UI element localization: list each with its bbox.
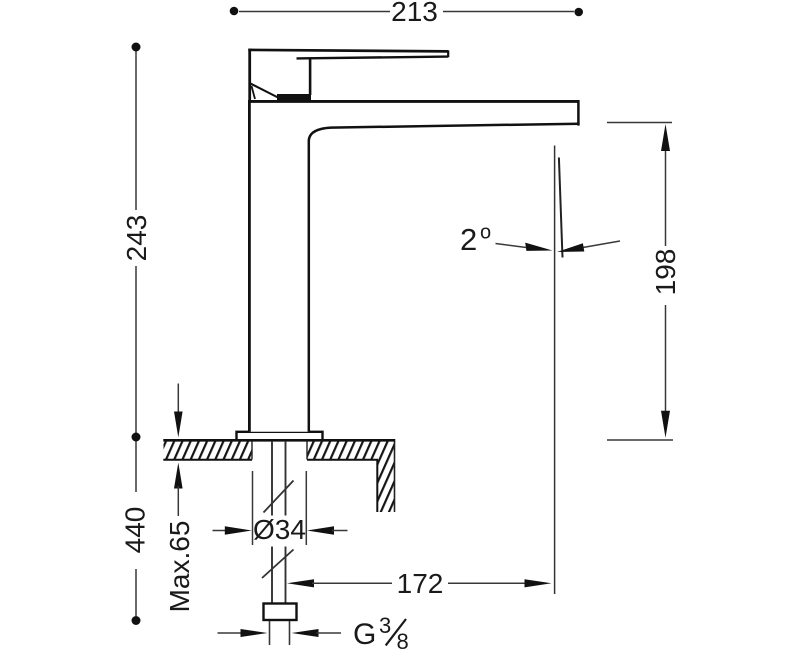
faucet column left edge xyxy=(248,100,251,432)
2 degree leader left with arrow xyxy=(496,244,531,249)
countertop deck hatched right section xyxy=(307,441,394,460)
vertical axis line through spout outlet xyxy=(554,146,556,595)
G3/8 extension tick left xyxy=(269,621,271,645)
handle left edge xyxy=(248,49,251,100)
svg-text:8: 8 xyxy=(397,629,409,650)
deck top surface line xyxy=(163,439,395,442)
diameter 34 extension line left xyxy=(252,471,254,545)
svg-text:172: 172 xyxy=(397,568,444,599)
handle base small facet line xyxy=(252,86,256,99)
deck leg inner edge xyxy=(376,460,378,512)
G3/8 connector box xyxy=(264,604,297,621)
supply pipe left edge upper xyxy=(271,441,273,516)
pipe break slash upper xyxy=(264,481,294,513)
dot at deck level xyxy=(132,433,141,442)
pipe break slash lower xyxy=(262,550,294,579)
supply pipe left edge lower xyxy=(271,547,273,604)
svg-text:Max.65: Max.65 xyxy=(164,521,195,613)
svg-text:2: 2 xyxy=(460,222,477,257)
deck bottom line left xyxy=(163,459,252,461)
dimension line 213 (top) xyxy=(239,11,574,13)
2 degree tilted line xyxy=(559,158,563,258)
dark gap bar between handle and body xyxy=(277,94,311,102)
Max.65 dimension arrow above deck xyxy=(177,384,179,415)
dot endpoint left of 213 xyxy=(230,7,239,16)
svg-text:G: G xyxy=(353,618,376,650)
2 degree leader right with arrow xyxy=(580,241,620,248)
handle stem front edge xyxy=(309,57,312,95)
handle lever tip edge xyxy=(447,50,449,57)
172 dimension line left segment with arrow xyxy=(287,579,314,587)
svg-text:Ø34: Ø34 xyxy=(253,514,306,545)
handle base diagonal facet line xyxy=(250,83,279,98)
handle white fill xyxy=(250,50,449,99)
dimension line 243/440 (left vertical) xyxy=(135,51,137,616)
G3/8 dimension arrow right xyxy=(292,629,319,637)
countertop deck hatched left section xyxy=(164,441,253,460)
198 extension line top xyxy=(607,122,672,124)
deck leg outer edge xyxy=(394,441,396,512)
faucet base plate (escutcheon) xyxy=(237,432,323,440)
diameter 34 dimension line right with arrow xyxy=(307,526,334,534)
spout underside edge and column inner edge xyxy=(309,124,580,432)
svg-text:198: 198 xyxy=(650,249,681,296)
198 extension line bottom xyxy=(607,439,673,441)
G3/8 extension tick right xyxy=(289,621,291,645)
198 dimension line with arrows xyxy=(665,148,667,246)
G3/8 dimension arrow left xyxy=(218,632,243,634)
dot at top of 243 xyxy=(132,43,141,52)
supply pipe right edge lower xyxy=(285,547,287,604)
diameter 34 extension line right xyxy=(305,471,307,545)
handle lever top edge xyxy=(248,50,448,52)
dot at bottom of 440 xyxy=(132,616,141,625)
countertop front leg hatched xyxy=(377,460,394,513)
spout right end edge xyxy=(577,100,580,126)
supply pipe right edge upper xyxy=(285,441,287,516)
faucet body white fill xyxy=(250,100,579,432)
dot endpoint right of 213 xyxy=(574,8,583,17)
svg-text:3: 3 xyxy=(379,613,391,638)
deck hole right edge xyxy=(306,441,308,460)
deck bottom line right xyxy=(307,459,378,461)
handle lever underside edge xyxy=(297,57,449,59)
diameter 34 dimension line left with arrow xyxy=(213,530,227,532)
svg-text:243: 243 xyxy=(121,215,152,262)
svg-text:213: 213 xyxy=(391,0,438,27)
faucet body top edge xyxy=(248,100,578,103)
deck hole left edge xyxy=(251,441,253,460)
fraction slash xyxy=(386,619,406,645)
svg-text:o: o xyxy=(480,222,491,244)
svg-text:440: 440 xyxy=(120,507,151,554)
172 dimension line right segment with arrow xyxy=(448,582,526,584)
Max.65 dimension arrow below deck xyxy=(174,463,183,489)
